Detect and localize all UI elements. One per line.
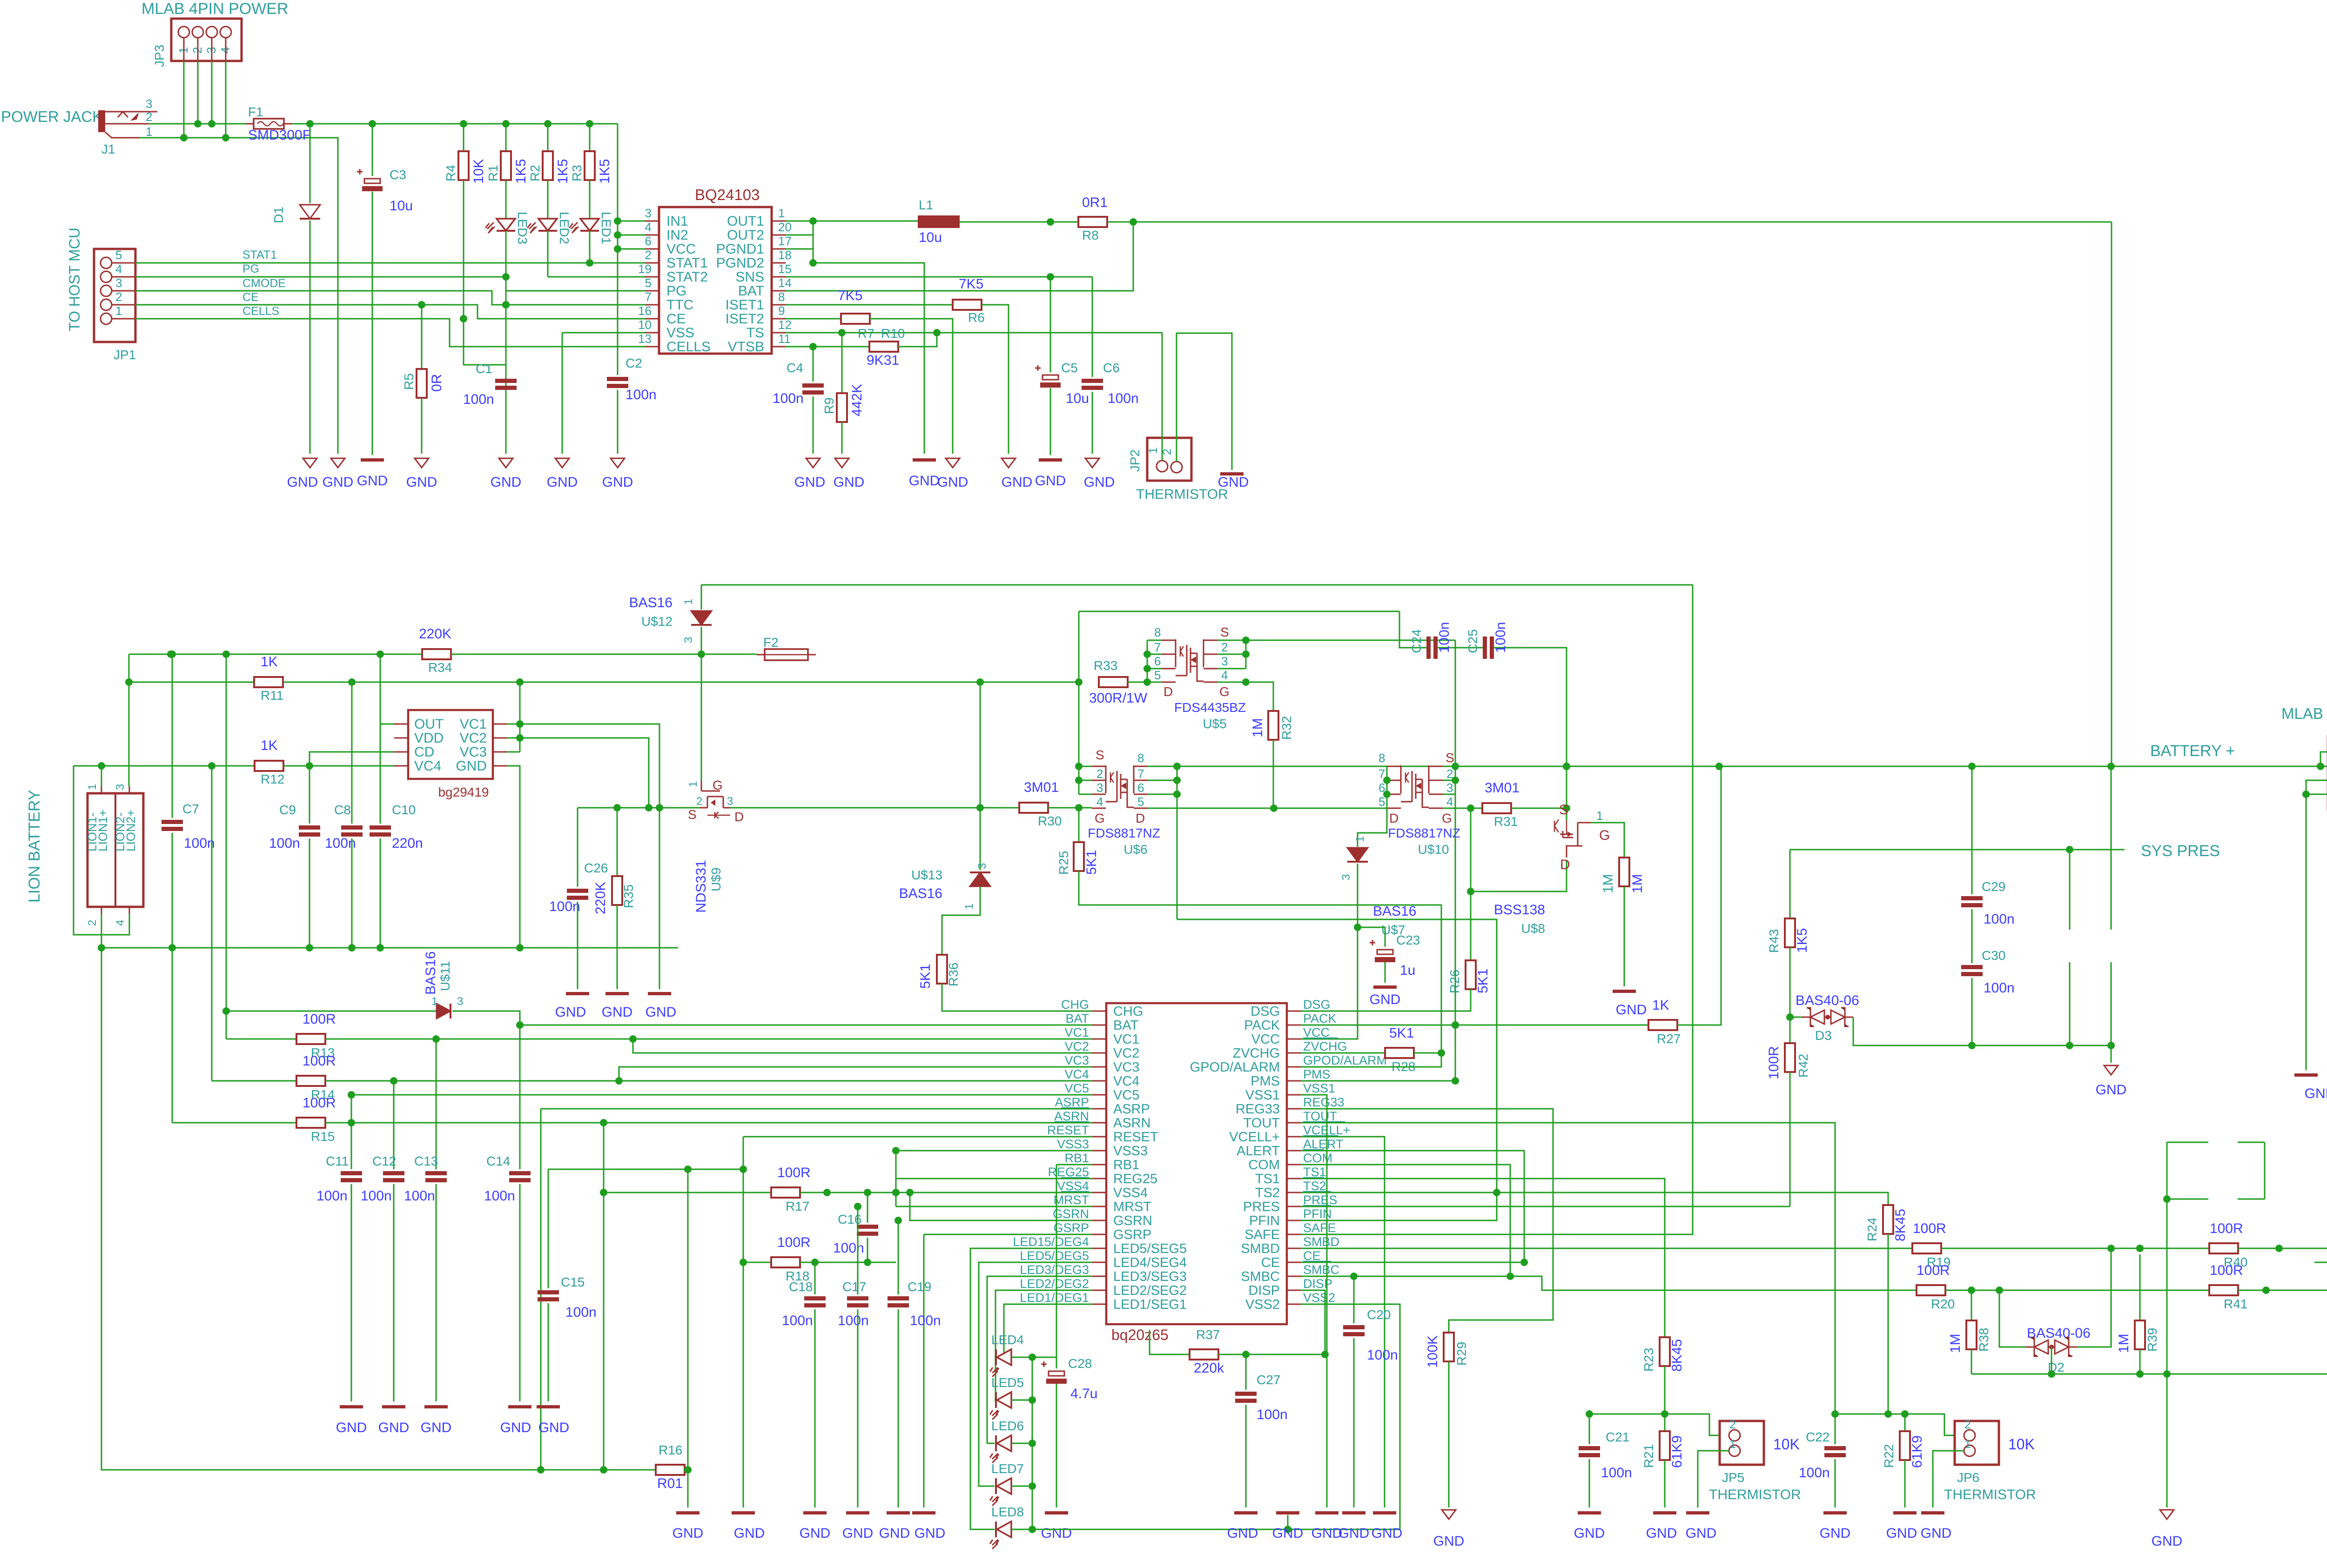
wire R11 row right: [283, 682, 1079, 683]
svg-text:10u: 10u: [1066, 391, 1089, 406]
svg-text:LION2-: LION2-: [113, 812, 127, 851]
svg-text:CELLS: CELLS: [666, 339, 711, 355]
svg-text:IN1: IN1: [666, 214, 688, 229]
wire C10 top from OUT pin: [380, 724, 394, 725]
wire U$5 pin3 leg: [1177, 766, 1178, 919]
svg-text:JP3: JP3: [152, 45, 167, 67]
svg-text:8K45: 8K45: [1893, 1209, 1908, 1241]
svg-text:PG: PG: [242, 262, 259, 275]
ground C22: [1823, 1511, 1847, 1514]
wire SMBC row jog to R20: [1301, 1276, 1917, 1290]
wire charger output rail: [1108, 221, 2112, 223]
svg-text:LED4/SEG4: LED4/SEG4: [1113, 1255, 1187, 1270]
wire LED4/SEG4 to LED7: [979, 1262, 1092, 1486]
svg-text:GND: GND: [555, 1005, 586, 1020]
svg-text:14: 14: [778, 276, 792, 290]
svg-text:LED8: LED8: [991, 1505, 1024, 1519]
bq20z65 right pin DISP: [1287, 1290, 1301, 1291]
svg-text:442K: 442K: [849, 384, 865, 416]
bq20z65 right pin CE: [1287, 1262, 1301, 1263]
svg-text:0R: 0R: [429, 374, 444, 392]
svg-text:VC5: VC5: [1113, 1088, 1139, 1103]
ground R35: [605, 992, 629, 995]
svg-text:16: 16: [638, 304, 652, 318]
wire STAT1 row: [135, 262, 645, 264]
svg-text:3M01: 3M01: [1485, 780, 1520, 796]
ground C18: [803, 1511, 827, 1514]
wire JP2 pin2 to ground: [1177, 333, 1232, 470]
svg-text:GND: GND: [842, 1526, 874, 1541]
svg-text:C30: C30: [1982, 948, 2005, 963]
svg-text:SMD300F: SMD300F: [248, 127, 311, 143]
LED LED3: [505, 180, 507, 219]
capacitor C2 100n: [607, 377, 628, 381]
svg-text:GND: GND: [800, 1526, 831, 1541]
svg-text:R36: R36: [946, 963, 961, 986]
svg-text:MLAB 4PIN POWER: MLAB 4PIN POWER: [2281, 705, 2327, 722]
wire JP4 pin1 stub: [2314, 1262, 2327, 1263]
resistor R32 1M: [1268, 711, 1278, 740]
wire VC2 row to pack-: [520, 738, 649, 808]
svg-text:C7: C7: [182, 802, 199, 816]
svg-text:NDS331: NDS331: [693, 860, 709, 912]
capacitor C8 100n: [351, 738, 353, 824]
wire ZVCHG to R28: [1301, 1052, 1385, 1054]
resistor R42 100R: [1785, 1043, 1795, 1072]
connector JP1: [94, 249, 135, 342]
wire VC4 row from R14: [212, 1080, 296, 1082]
wire DSG net vertical with R26: [1470, 808, 1472, 960]
svg-text:R15: R15: [311, 1129, 335, 1144]
svg-text:G: G: [1442, 811, 1452, 825]
wire VSS3 row: [896, 1150, 1092, 1152]
svg-text:3: 3: [115, 276, 122, 290]
svg-text:C20: C20: [1367, 1307, 1391, 1322]
svg-text:3: 3: [457, 995, 463, 1008]
svg-text:GND: GND: [937, 475, 968, 490]
wire BAT sense: [786, 222, 1133, 291]
ground VSS1: [1315, 1511, 1338, 1514]
wire U$7 to VCC node: [1301, 864, 1358, 1039]
wire VC1 row to pack-: [520, 724, 659, 808]
bq20z65 left pin VSS4: [1092, 1192, 1106, 1193]
svg-text:VC1: VC1: [1113, 1032, 1139, 1047]
BQ24103 pin 2 STAT1: [645, 262, 659, 264]
svg-text:D: D: [1136, 811, 1145, 825]
ground D1: [303, 458, 317, 468]
wire PRES row to R42: [1301, 1206, 1790, 1207]
ground JP5: [1686, 1511, 1709, 1514]
svg-text:FDS4435BZ: FDS4435BZ: [1174, 700, 1246, 715]
svg-text:3: 3: [645, 206, 652, 220]
svg-text:18: 18: [778, 248, 792, 262]
svg-text:PRES: PRES: [1243, 1199, 1280, 1214]
svg-text:C4: C4: [787, 361, 803, 375]
svg-text:GND: GND: [1311, 1526, 1343, 1541]
ground C27: [1234, 1511, 1258, 1514]
resistor R11 1K: [254, 677, 283, 687]
wire battery pin4 loop: [74, 766, 129, 935]
wire sense ground column: [687, 1169, 689, 1508]
svg-text:GND: GND: [794, 475, 826, 490]
svg-text:R37: R37: [1196, 1327, 1220, 1342]
resistor R24 8K45: [1883, 1205, 1893, 1234]
wire VCC feed vertical to IN1 IN2 VCC and C2: [617, 124, 619, 375]
wire PG pin row: [506, 290, 645, 292]
wire R36 to CHG row: [942, 984, 1092, 1011]
wire BAT row: [520, 1025, 1092, 1026]
resistor R37 220k: [1150, 1330, 1190, 1354]
wire JP3 pin2 to upper rail: [197, 61, 199, 124]
wire battery- ground tie: [659, 808, 660, 989]
svg-text:BAS16: BAS16: [629, 595, 673, 610]
resistor 1M 1M: [1619, 858, 1629, 886]
svg-text:CHG: CHG: [1113, 1004, 1143, 1019]
svg-text:VC4: VC4: [1113, 1074, 1139, 1089]
svg-text:9K31: 9K31: [867, 353, 899, 368]
svg-text:100R: 100R: [1913, 1221, 1946, 1236]
svg-text:R32: R32: [1279, 716, 1294, 740]
resistor R9 442K: [841, 333, 843, 393]
resistor R31 3M01: [1482, 803, 1511, 813]
wire R16 to sense node: [685, 1469, 688, 1471]
wire VTSB row: [786, 346, 869, 348]
wire VC5 row: [351, 1094, 1092, 1096]
svg-text:THERMISTOR: THERMISTOR: [1709, 1487, 1801, 1502]
LED LED8: [995, 1521, 997, 1537]
svg-text:U$5: U$5: [1203, 717, 1226, 731]
ground C14: [508, 1405, 531, 1408]
svg-text:COM: COM: [1248, 1158, 1280, 1173]
svg-text:BAT: BAT: [1113, 1018, 1139, 1033]
svg-text:7: 7: [1154, 640, 1161, 654]
svg-text:ALERT: ALERT: [1303, 1137, 1344, 1151]
wire R31 to C24 node: [1511, 808, 1567, 809]
svg-text:G: G: [1219, 684, 1230, 699]
wire PACK tie to U$10 source: [1455, 640, 1456, 1081]
wire JP7 pin3: [2306, 780, 2327, 794]
BQ24103 pin 6 VCC: [645, 248, 659, 250]
bq20z65 left pin ASRP: [1092, 1108, 1106, 1110]
svg-text:9: 9: [778, 304, 785, 318]
capacitor C13 100n: [436, 1039, 437, 1169]
svg-text:11: 11: [778, 332, 791, 346]
svg-text:J1: J1: [101, 142, 115, 156]
svg-text:GSRP: GSRP: [1053, 1221, 1089, 1235]
svg-text:100n: 100n: [463, 392, 494, 407]
bq20z65 left pin RESET: [1092, 1136, 1106, 1138]
ground C3: [361, 458, 384, 462]
svg-text:GND: GND: [2305, 1086, 2327, 1101]
svg-text:R20: R20: [1931, 1297, 1955, 1311]
svg-text:100n: 100n: [361, 1188, 392, 1204]
wire VC1 VC2 VC3 tie vertical: [519, 682, 521, 752]
wire ISET2 to R7: [786, 318, 841, 320]
svg-text:CD: CD: [414, 744, 434, 760]
svg-text:ALERT: ALERT: [1237, 1144, 1280, 1159]
svg-text:GND: GND: [915, 1526, 946, 1541]
svg-text:4: 4: [1221, 668, 1228, 682]
svg-text:DISP: DISP: [1303, 1277, 1332, 1291]
svg-text:8: 8: [778, 290, 785, 304]
svg-text:100n: 100n: [833, 1240, 864, 1256]
svg-text:GSRN: GSRN: [1113, 1213, 1152, 1228]
svg-text:100R: 100R: [2210, 1263, 2243, 1278]
resistor R18 100R: [771, 1257, 800, 1267]
svg-text:3: 3: [1221, 654, 1228, 668]
ground C26: [566, 992, 589, 995]
capacitor C20 100n: [1353, 1276, 1355, 1323]
svg-text:100n: 100n: [1108, 391, 1139, 406]
svg-text:U$13: U$13: [911, 868, 942, 882]
svg-text:C28: C28: [1068, 1356, 1092, 1371]
resistor R21 61K9: [1664, 1414, 1666, 1431]
wire CE row: [1301, 1262, 1524, 1263]
svg-text:10: 10: [638, 318, 652, 332]
wire CE row with jog: [135, 305, 645, 319]
svg-text:1K5: 1K5: [597, 159, 612, 184]
bq20z65 right pin PFIN: [1287, 1220, 1301, 1221]
wire ALERT row: [1301, 1151, 1524, 1262]
svg-text:100n: 100n: [1984, 911, 2015, 927]
wire battery- left border loop: [101, 948, 656, 1470]
svg-text:BSS138: BSS138: [1494, 902, 1545, 918]
IC U3 bq20z65: [1106, 1003, 1287, 1324]
svg-text:8: 8: [1137, 751, 1144, 765]
svg-text:100n: 100n: [838, 1313, 869, 1328]
wire ASRN row: [325, 1122, 1092, 1124]
svg-text:JP6: JP6: [1957, 1470, 1979, 1485]
svg-text:CELLS: CELLS: [242, 305, 279, 318]
svg-text:G: G: [713, 778, 723, 792]
svg-text:4.7u: 4.7u: [1070, 1386, 1097, 1401]
resistor R25 5K1: [1078, 808, 1080, 842]
wire R33 feed vertical: [1078, 682, 1080, 794]
wire STAT2 row right: [548, 276, 645, 278]
wire REG33 to R29: [1301, 1109, 1553, 1333]
svg-text:PFIN: PFIN: [1249, 1213, 1280, 1228]
svg-text:1K5: 1K5: [1795, 928, 1810, 953]
svg-text:220K: 220K: [419, 626, 451, 642]
wire R28 to GPOD: [1301, 1053, 1441, 1067]
svg-text:R5: R5: [402, 373, 416, 390]
svg-text:RESET: RESET: [1047, 1123, 1089, 1137]
svg-text:220k: 220k: [1194, 1360, 1224, 1376]
svg-text:C27: C27: [1257, 1373, 1280, 1387]
BQ24103 pin 1 OUT1: [772, 221, 786, 222]
svg-text:1K: 1K: [261, 738, 278, 753]
svg-text:5: 5: [115, 248, 122, 262]
wire D2 right to R19 row: [2077, 1248, 2111, 1347]
svg-text:100n: 100n: [484, 1188, 515, 1204]
svg-text:TS2: TS2: [1255, 1186, 1280, 1200]
wire R12 row right to VC4: [283, 765, 394, 767]
svg-text:5K1: 5K1: [1475, 969, 1491, 993]
resistor R3 1K5: [589, 124, 591, 151]
svg-text:1K: 1K: [1652, 998, 1669, 1013]
svg-text:GND: GND: [1035, 473, 1066, 489]
wire U$10 gate to R31: [1443, 808, 1482, 809]
wire VC3 jog: [619, 1067, 1092, 1081]
transistor U$6 FDS8817NZ: [1092, 766, 1106, 767]
svg-text:LED6: LED6: [991, 1419, 1024, 1433]
ground C6: [1085, 458, 1099, 468]
resistor R36 5K1: [937, 955, 947, 984]
svg-text:3: 3: [976, 863, 989, 869]
svg-text:61K9: 61K9: [1910, 1435, 1925, 1468]
bq20z65 right pin VSS1: [1287, 1094, 1301, 1096]
IC U2 bg29419: [408, 710, 493, 779]
svg-text:R30: R30: [1038, 814, 1062, 828]
capacitor C17 100n: [857, 1206, 859, 1294]
wire CMODE row with jog: [135, 291, 645, 305]
svg-text:GND: GND: [357, 473, 388, 489]
svg-text:TO HOST MCU: TO HOST MCU: [66, 228, 83, 331]
wire battery+ leg: [2111, 766, 2112, 1045]
svg-text:TOUT: TOUT: [1303, 1109, 1337, 1123]
svg-text:12: 12: [778, 318, 792, 332]
bq20z65 right pin TS2: [1287, 1192, 1301, 1193]
capacitor C4 100n: [813, 347, 814, 382]
LED LED4: [995, 1349, 997, 1365]
svg-text:S: S: [688, 807, 697, 822]
svg-text:1M: 1M: [1948, 1333, 1963, 1353]
wire R26 node to BSS138 drain: [1471, 861, 1567, 891]
resistor R33 300R/1W: [1099, 677, 1128, 687]
wire D3 to C29/C30 ground row: [1853, 1017, 2111, 1045]
svg-text:C9: C9: [279, 803, 296, 817]
bq20z65 left pin LED4/SEG4: [1092, 1262, 1106, 1263]
svg-text:PMS: PMS: [1251, 1074, 1280, 1089]
bg29419 pin VC4: [394, 765, 408, 767]
svg-text:100R: 100R: [1917, 1263, 1950, 1278]
svg-text:5K1: 5K1: [918, 964, 933, 989]
wire R27 to battery+: [1677, 766, 1721, 1025]
svg-text:100R: 100R: [777, 1235, 811, 1250]
svg-text:S: S: [1220, 625, 1229, 639]
svg-text:ASRP: ASRP: [1113, 1102, 1150, 1117]
wire MRST row: [896, 1206, 1092, 1207]
svg-text:100R: 100R: [1766, 1046, 1782, 1079]
svg-text:BQ24103: BQ24103: [695, 186, 760, 203]
wire U$5 source tie: [1217, 640, 1246, 641]
svg-text:7K5: 7K5: [959, 276, 983, 292]
svg-text:1: 1: [146, 125, 152, 139]
ground C28: [1045, 1511, 1068, 1514]
svg-text:CE: CE: [1303, 1249, 1321, 1263]
svg-text:VC2: VC2: [460, 730, 487, 746]
wire JP6 junction row: [1835, 1414, 1957, 1435]
svg-text:7: 7: [645, 290, 652, 304]
svg-text:CE: CE: [1261, 1255, 1280, 1270]
svg-text:R21: R21: [1641, 1444, 1656, 1468]
svg-text:R43: R43: [1767, 929, 1781, 953]
svg-text:GND: GND: [1574, 1526, 1605, 1541]
ground 1M: [1613, 990, 1636, 993]
connector JP5 thermistor: [1720, 1421, 1764, 1465]
svg-text:5K1: 5K1: [1084, 850, 1099, 875]
wire join row ground leg: [2166, 1374, 2168, 1508]
svg-text:100R: 100R: [777, 1165, 811, 1180]
svg-text:VC2: VC2: [1113, 1046, 1139, 1061]
svg-text:BAS40-06: BAS40-06: [2027, 1326, 2091, 1341]
resistor R19 100R: [1912, 1243, 1941, 1253]
svg-text:2: 2: [1729, 1418, 1736, 1431]
svg-text:VDD: VDD: [414, 730, 444, 746]
wire C7 column to R15 row: [172, 948, 173, 1123]
svg-text:3: 3: [727, 795, 733, 808]
BQ24103 pin 15 SNS: [772, 276, 786, 278]
capacitor C16 100n: [867, 1193, 868, 1223]
svg-text:PMS: PMS: [1303, 1067, 1331, 1081]
ground VSS: [555, 458, 569, 468]
wire U$6 drain tie to battery+ rail: [1148, 766, 1177, 767]
svg-text:C19: C19: [908, 1280, 931, 1294]
svg-text:4: 4: [645, 220, 652, 234]
wire PFIN row: [1177, 919, 1497, 1220]
svg-text:100n: 100n: [773, 391, 804, 406]
svg-text:R42: R42: [1796, 1054, 1810, 1078]
wire BSS138 gate to 1M: [1591, 823, 1624, 858]
svg-text:OUT: OUT: [414, 717, 444, 732]
svg-text:3: 3: [1340, 874, 1352, 880]
bg29419 pin VC2: [493, 737, 507, 739]
wire PACK row to R27: [1301, 1025, 1648, 1026]
svg-text:U$12: U$12: [641, 614, 673, 629]
wire SMBD row to R19: [1301, 1248, 1912, 1249]
wire R13 feed from 220K net: [226, 654, 227, 1039]
svg-text:C29: C29: [1982, 879, 2005, 894]
svg-text:10K: 10K: [1773, 1436, 1800, 1453]
ground GSRP: [912, 1511, 935, 1514]
ground C2: [611, 458, 625, 468]
svg-text:R2: R2: [528, 165, 542, 181]
resistor R23 8K45: [1660, 1337, 1670, 1366]
svg-text:1M: 1M: [1601, 874, 1616, 893]
svg-text:PACK: PACK: [1244, 1018, 1280, 1033]
diode U$7 BAS16: [1347, 848, 1368, 862]
bq20z65 left pin LED2/SEG2: [1092, 1290, 1106, 1291]
svg-text:R24: R24: [1865, 1218, 1879, 1241]
svg-text:BAS16: BAS16: [1373, 904, 1416, 919]
wire LED rail to C28: [1032, 1357, 1056, 1368]
transistor U$9 NDS331: [701, 781, 702, 791]
svg-text:R29: R29: [1454, 1342, 1469, 1366]
power jack J1: [98, 110, 105, 132]
svg-text:C14: C14: [486, 1154, 510, 1168]
svg-text:R35: R35: [621, 885, 636, 908]
svg-text:JP2: JP2: [1128, 449, 1142, 472]
svg-text:OUT1: OUT1: [727, 214, 764, 229]
wire battery+ rail: [1177, 766, 2327, 767]
wire pack- rail right leg to SAFE: [1301, 585, 1693, 1234]
svg-text:LED5/SEG5: LED5/SEG5: [1113, 1241, 1187, 1256]
svg-text:1: 1: [1354, 836, 1366, 842]
LED LED5: [995, 1392, 997, 1408]
svg-text:C23: C23: [1396, 933, 1420, 947]
svg-text:VC3: VC3: [1064, 1053, 1089, 1067]
svg-text:U$9: U$9: [709, 867, 723, 891]
BQ24103 pin 14 BAT: [772, 290, 786, 292]
bg29419 pin VC1: [493, 724, 507, 725]
connector JP6 thermistor: [1955, 1421, 1999, 1465]
capacitor C21 100n: [1589, 1414, 1590, 1444]
ground battery-: [648, 992, 671, 995]
svg-text:1: 1: [963, 904, 975, 910]
wire TS2 row to R24: [1301, 1193, 1888, 1205]
bq20z65 right pin VCC: [1287, 1039, 1301, 1040]
resistor R7 7K5: [841, 314, 870, 324]
